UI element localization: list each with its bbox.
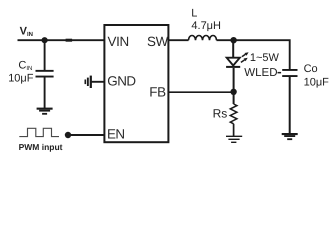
wire: GND pin lead	[92, 81, 105, 83]
wire: thick dash on VIN rail	[66, 39, 73, 42]
inductor L	[189, 36, 217, 41]
wire: FB pin to junction	[168, 91, 233, 93]
wire: SW pin to inductor	[168, 39, 188, 41]
LED WLED cathode bar	[226, 66, 240, 68]
ground (GND pin, rotated bar style)	[85, 76, 92, 88]
svg-text:10μF: 10μF	[304, 76, 330, 88]
svg-text:Co: Co	[304, 63, 318, 75]
svg-text:4.7μH: 4.7μH	[191, 20, 221, 32]
LED light arrow 1	[241, 58, 248, 63]
PWM waveform symbol	[19, 128, 59, 136]
node: EN junction dot	[65, 132, 71, 138]
svg-text:GND: GND	[107, 73, 136, 88]
svg-text:L: L	[191, 8, 197, 20]
wire: inductor to output corner	[217, 40, 290, 69]
wire: Co bottom lead	[289, 77, 291, 133]
wire: CIN top lead	[44, 40, 46, 70]
LED light arrow 2	[242, 52, 249, 56]
capacitor CIN	[36, 70, 54, 78]
svg-text:VIN: VIN	[20, 25, 33, 38]
wire: CIN bottom lead	[44, 78, 46, 109]
svg-text:10μF: 10μF	[8, 73, 34, 85]
svg-text:Rs: Rs	[213, 107, 228, 121]
node: VIN junction	[42, 37, 48, 43]
ground (Rs, earth line style)	[226, 136, 242, 142]
svg-text:FB: FB	[149, 85, 166, 100]
svg-text:1~5W: 1~5W	[250, 52, 280, 64]
ground (CIN, solid bar style)	[37, 108, 53, 115]
svg-text:WLED: WLED	[244, 67, 277, 79]
wire: LED anode lead	[232, 40, 234, 57]
node: FB junction	[230, 89, 236, 95]
node: LED branch junction	[230, 37, 236, 43]
wire: LED cathode to Rs	[233, 68, 235, 104]
svg-text:EN: EN	[107, 127, 125, 142]
ground (output, solid bar style)	[282, 133, 298, 140]
wire: VIN input rail	[18, 39, 105, 41]
resistor Rs	[230, 104, 237, 124]
svg-text:VIN: VIN	[108, 34, 129, 49]
wire: Rs bottom lead	[233, 124, 235, 137]
wire: EN lead	[68, 134, 104, 136]
capacitor Co	[278, 69, 298, 77]
svg-text:PWM input: PWM input	[19, 142, 63, 152]
svg-text:SW: SW	[147, 34, 169, 49]
IC U1 (LED driver)	[104, 25, 168, 142]
LED WLED triangle	[227, 58, 240, 66]
svg-text:CIN: CIN	[18, 60, 32, 73]
